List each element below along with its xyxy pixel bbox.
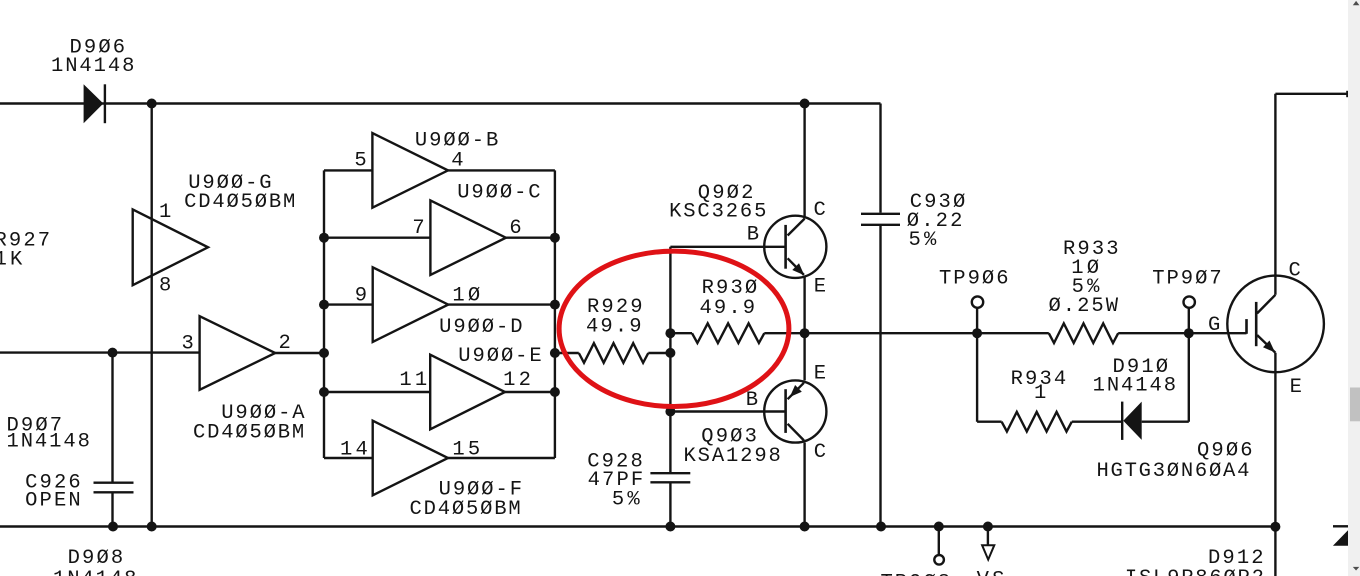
op-amp U900-G	[133, 209, 208, 285]
svg-text:E: E	[814, 363, 826, 386]
wire Q903 collector	[803, 443, 805, 527]
wire U900-C output	[506, 236, 555, 238]
svg-text:G: G	[1208, 314, 1220, 337]
diode D912	[1333, 525, 1348, 527]
node bus-out junctions	[550, 233, 560, 243]
svg-text:KSA1298: KSA1298	[684, 445, 781, 468]
wire U900-F input	[324, 457, 373, 459]
wire output bus	[554, 170, 556, 458]
transistor Q906	[1227, 276, 1324, 373]
wire Q906 emitter	[1274, 353, 1276, 576]
op-amp U900-C	[430, 200, 506, 275]
wire U900-E input	[324, 391, 430, 393]
svg-text:KSC3265: KSC3265	[669, 201, 766, 224]
node junction x670 R930	[665, 328, 675, 338]
node bottom rail junctions	[108, 522, 118, 532]
node VS arrow	[987, 527, 989, 546]
test point TP907	[1188, 308, 1190, 333]
node junction D907	[108, 348, 118, 358]
node junction top rail Q902	[800, 99, 810, 109]
node junction emitters R930	[800, 328, 810, 338]
node junction R929 right	[665, 348, 675, 358]
transistor Q902	[764, 216, 826, 278]
svg-text:TP9Ø6: TP9Ø6	[939, 267, 1009, 290]
wire Q902 collector	[803, 104, 805, 219]
wire vertical x151	[150, 104, 152, 527]
capacitor C930	[861, 213, 900, 215]
op-amp U900-A	[200, 316, 276, 390]
wire scrollbar down arrow	[1353, 567, 1360, 571]
wire C930 bottom lead	[879, 226, 881, 527]
svg-text:E: E	[814, 276, 826, 299]
diode D906	[84, 84, 104, 123]
op-amp U900-B	[372, 133, 448, 208]
svg-text:9: 9	[355, 285, 367, 308]
capacitor C926	[94, 482, 134, 484]
svg-text:1: 1	[159, 201, 171, 224]
wire U900-B output	[448, 169, 555, 171]
node junction TP907	[1184, 328, 1194, 338]
op-amp U900-D	[373, 267, 449, 342]
wire scrollbar track	[1348, 0, 1360, 576]
svg-text:8: 8	[159, 275, 171, 298]
svg-text:ISL9R86ØP2: ISL9R86ØP2	[1125, 567, 1264, 576]
wire Q903 base	[670, 410, 785, 412]
wire U900-E output	[505, 391, 555, 393]
svg-text:B: B	[746, 389, 758, 412]
node wire end tick	[1346, 91, 1348, 97]
svg-text:1: 1	[1034, 382, 1046, 405]
wire input row y352	[0, 351, 200, 353]
wire U900-B input	[324, 169, 372, 171]
wire vertical x670	[669, 247, 671, 472]
wire gate row	[805, 332, 1049, 334]
svg-text:2: 2	[279, 332, 291, 355]
svg-text:CD4Ø5ØBM: CD4Ø5ØBM	[184, 191, 295, 214]
svg-text:7: 7	[412, 217, 424, 240]
node red highlight ellipse	[559, 251, 789, 406]
svg-text:HGTG3ØN6ØA4: HGTG3ØN6ØA4	[1097, 460, 1250, 483]
node junction x670 Q903 base	[665, 407, 675, 417]
svg-text:C: C	[1289, 260, 1301, 283]
wire U900-D output	[448, 303, 555, 305]
wire scrollbar thumb	[1350, 388, 1360, 422]
op-amp U900-E	[430, 355, 505, 430]
wire top rail	[0, 102, 881, 104]
wire U900-A output	[275, 352, 324, 354]
svg-text:Ø.25W: Ø.25W	[1049, 295, 1119, 318]
test point TP908	[938, 527, 940, 556]
resistor R930	[670, 332, 692, 334]
svg-text:CD4Ø5ØBM: CD4Ø5ØBM	[410, 498, 521, 521]
wire bypass right leg	[1142, 421, 1189, 423]
svg-text:TP9Ø8: TP9Ø8	[881, 571, 951, 576]
wire bottom rail	[0, 525, 1275, 527]
wire U900-D input	[324, 303, 373, 305]
svg-text:4: 4	[451, 149, 463, 172]
svg-text:3: 3	[182, 332, 194, 355]
wire C930 top lead	[879, 104, 881, 213]
svg-text:C: C	[814, 441, 826, 464]
node junction top-left	[147, 99, 157, 109]
svg-text:CD4Ø5ØBM: CD4Ø5ØBM	[193, 421, 304, 444]
svg-text:5: 5	[354, 149, 366, 172]
resistor R929	[555, 352, 579, 354]
transistor Q903	[764, 380, 826, 442]
diode D910	[1121, 402, 1123, 440]
node junction TP906	[972, 328, 982, 338]
wire U900-F output	[448, 457, 555, 459]
svg-text:E: E	[1290, 376, 1302, 399]
svg-text:TP9Ø7: TP9Ø7	[1152, 267, 1222, 290]
svg-text:1K: 1K	[0, 249, 23, 272]
wire input bus	[323, 170, 325, 458]
test point TP906	[976, 308, 978, 333]
wire U900-C input	[324, 236, 430, 238]
resistor R933	[1049, 323, 1118, 343]
capacitor C928	[650, 472, 690, 474]
wire top right	[1275, 93, 1347, 95]
wire Q902-Q903 emitters	[803, 276, 805, 381]
wire Q902 base	[670, 246, 785, 248]
resistor R934	[977, 421, 1002, 423]
wire scrollbar up arrow	[1353, 1, 1360, 5]
wire Q906 collector	[1274, 94, 1276, 295]
wire bypass left leg	[976, 333, 978, 422]
wire vertical x112	[111, 353, 113, 482]
node bus-in junctions	[319, 233, 329, 243]
op-amp U900-F	[373, 421, 448, 496]
svg-text:C: C	[814, 199, 826, 222]
svg-text:B: B	[747, 224, 759, 247]
